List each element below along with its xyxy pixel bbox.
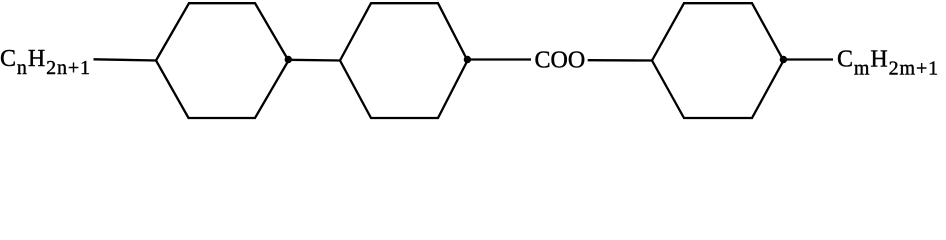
- ring 3 (cyclohexane): [652, 3, 784, 118]
- svg-text:COO: COO: [535, 48, 586, 74]
- bond: CnH2n+1 to ring 1: [94, 59, 158, 60]
- ring 1 (cyclohexane): [156, 3, 289, 118]
- bond: ring 3 to CmH2m+1: [783, 58, 833, 60]
- bond: COO to ring 3: [588, 59, 653, 62]
- bond: ring 2 to COO: [467, 58, 531, 60]
- stereo dot on ring 2 right vertex: [464, 56, 471, 63]
- stereo dot on ring 3 right vertex: [780, 56, 787, 63]
- stereo dot on ring 1 right vertex: [285, 56, 292, 63]
- bond: ring 1 to ring 2: [288, 59, 341, 62]
- ring 2 (cyclohexane): [340, 3, 468, 118]
